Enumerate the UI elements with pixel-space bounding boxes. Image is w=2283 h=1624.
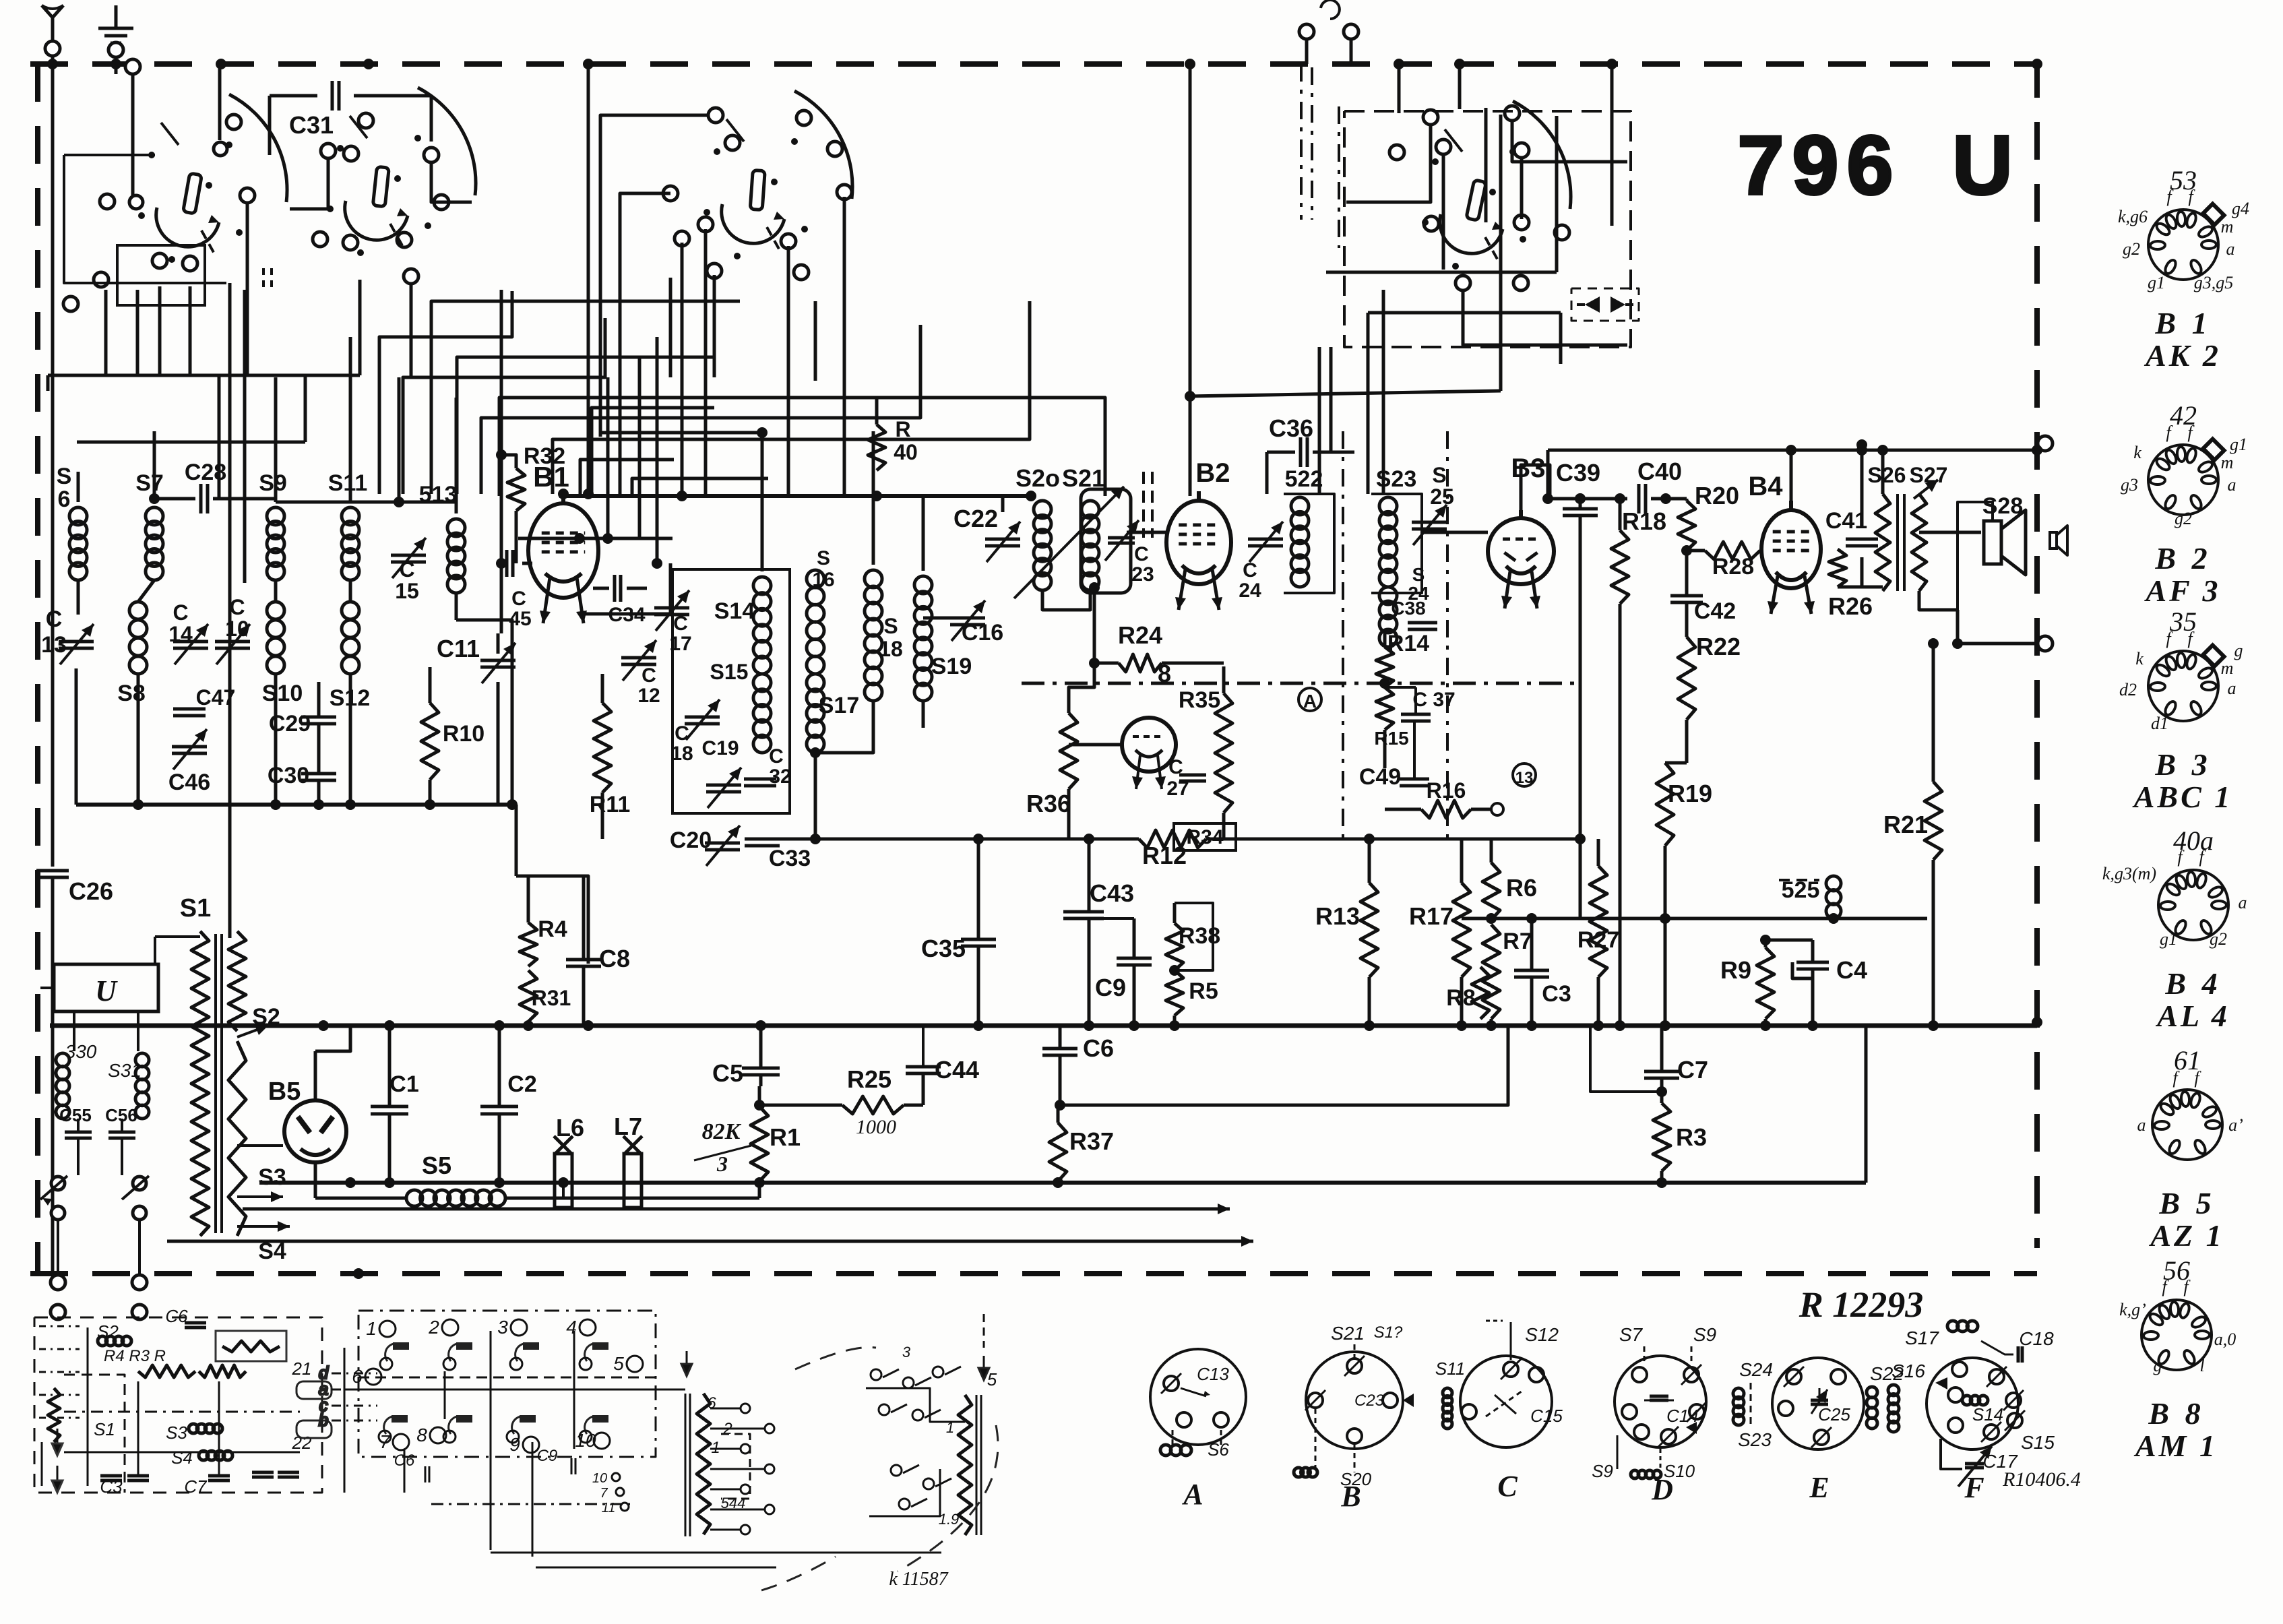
capacitor C26 — [36, 871, 113, 1272]
svg-text:C: C — [1134, 543, 1149, 565]
shield dashes right of C23 — [1144, 472, 1152, 538]
coil S31 — [108, 1053, 149, 1119]
svg-text:k: k — [2135, 649, 2144, 668]
svg-text:R6: R6 — [1506, 874, 1537, 902]
svg-text:C42: C42 — [1694, 598, 1736, 624]
ground symbol — [98, 5, 133, 57]
trimmer C16 — [923, 600, 1003, 646]
trimmer C20 — [670, 825, 740, 866]
resistor R38 — [1166, 903, 1220, 970]
svg-text:B 2: B 2 — [2154, 541, 2211, 575]
svg-text:S24: S24 — [1739, 1359, 1773, 1380]
capacitor C39 — [1556, 459, 1600, 918]
svg-text:C13: C13 — [1197, 1364, 1229, 1384]
svg-text:R25: R25 — [847, 1065, 892, 1093]
svg-text:3: 3 — [497, 1317, 508, 1338]
resistor R31 — [520, 970, 571, 1031]
tube B2 — [1166, 458, 1231, 610]
svg-text:B: B — [1340, 1480, 1361, 1513]
svg-text:22: 22 — [292, 1433, 312, 1453]
resistor R7 — [1482, 925, 1532, 1026]
svg-text:g1: g1 — [2148, 273, 2165, 292]
tube socket B3 ABC1 — [2119, 606, 2243, 814]
coil S19 — [914, 494, 972, 728]
capacitor C1 — [371, 1020, 419, 1188]
resistor R4 — [520, 876, 588, 966]
coil S15 — [710, 660, 771, 753]
title 796 U — [1738, 119, 2013, 212]
svg-text:C: C — [1497, 1470, 1518, 1503]
svg-text:C: C — [769, 745, 784, 768]
terminal speaker right — [2038, 436, 2067, 651]
svg-text:B3: B3 — [1511, 454, 1545, 483]
svg-text:R37: R37 — [1069, 1127, 1114, 1155]
svg-text:S: S — [1412, 564, 1425, 585]
capacitor C40 — [1637, 458, 1687, 513]
svg-text:1: 1 — [711, 1439, 720, 1457]
svg-text:R21: R21 — [1883, 811, 1928, 838]
socket view F — [1888, 1321, 2081, 1504]
trimmer C13 — [41, 606, 94, 664]
trimmer C46 — [168, 729, 210, 795]
svg-text:C6: C6 — [1083, 1034, 1114, 1062]
svg-text:C33: C33 — [769, 846, 811, 871]
svg-text:S9: S9 — [1693, 1324, 1716, 1345]
svg-text:U: U — [1952, 119, 2013, 212]
resistor R13 — [1315, 834, 1378, 1026]
svg-text:12: 12 — [637, 685, 660, 707]
svg-text:C: C — [675, 722, 689, 745]
svg-text:k: k — [2133, 443, 2141, 462]
switch mains a — [40, 1176, 67, 1220]
coil S8 — [117, 580, 154, 805]
socket view E — [1733, 1358, 1904, 1504]
resistor R26 — [1828, 549, 1883, 620]
svg-text:R13: R13 — [1315, 902, 1360, 930]
svg-text:522: 522 — [1285, 466, 1323, 492]
svg-text:S4: S4 — [171, 1447, 193, 1468]
svg-text:18: 18 — [670, 743, 693, 765]
svg-text:R35: R35 — [1179, 687, 1220, 713]
svg-text:k 11587: k 11587 — [889, 1569, 948, 1590]
svg-text:S1: S1 — [180, 894, 211, 923]
svg-text:C26: C26 — [69, 877, 113, 905]
service sub-schematic right block — [319, 1311, 998, 1590]
svg-text:C8: C8 — [599, 945, 630, 972]
svg-text:C9: C9 — [1095, 974, 1126, 1001]
wire long vertical from top border — [583, 64, 594, 499]
svg-text:S19: S19 — [931, 654, 972, 679]
socket view C — [1435, 1321, 1563, 1503]
svg-text:R27: R27 — [1577, 927, 1619, 953]
tube socket B2 AF3 — [2121, 400, 2247, 608]
svg-text:C34: C34 — [608, 604, 645, 626]
svg-text:S16: S16 — [1891, 1361, 1925, 1381]
svg-text:k,g’: k,g’ — [2119, 1300, 2146, 1319]
resistor R1 — [751, 1086, 801, 1181]
resistor R8 — [1446, 967, 1489, 1019]
svg-text:C4: C4 — [1836, 956, 1867, 984]
svg-text:C14: C14 — [1666, 1406, 1699, 1426]
svg-text:C15: C15 — [1530, 1406, 1563, 1426]
capacitor C38 — [1391, 598, 1437, 629]
capacitor small near R35 — [1179, 775, 1206, 781]
svg-text:R4 R3 R: R4 R3 R — [104, 1347, 166, 1365]
svg-text:C5: C5 — [712, 1059, 743, 1087]
resistor R21 — [1883, 638, 1942, 1022]
capacitor C41 — [1825, 439, 1878, 587]
coil S7 — [135, 431, 164, 580]
svg-text:S3: S3 — [258, 1164, 286, 1190]
svg-text:3: 3 — [716, 1152, 728, 1176]
coil S10 — [262, 580, 303, 805]
resistor R27 — [1577, 839, 1619, 1026]
capacitor C34 — [593, 575, 647, 626]
wire speaker return — [1952, 610, 2037, 649]
resistor R17 — [1409, 839, 1470, 1026]
trimmer C11 — [437, 633, 515, 805]
svg-text:R8: R8 — [1446, 985, 1475, 1011]
svg-text:C38: C38 — [1391, 598, 1425, 619]
svg-text:S14: S14 — [1972, 1404, 2003, 1425]
svg-text:S: S — [1432, 463, 1446, 487]
transformer S1 secondary — [228, 931, 290, 1264]
svg-text:L7: L7 — [614, 1113, 642, 1140]
resistor R24 — [1094, 621, 1224, 672]
capacitor C31 — [270, 81, 431, 155]
wire bus drop to power — [516, 805, 588, 964]
coil S23 — [1371, 466, 1422, 593]
svg-text:AM 1: AM 1 — [2133, 1429, 2218, 1463]
svg-text:B 5: B 5 — [2158, 1186, 2215, 1220]
svg-text:S31: S31 — [108, 1060, 142, 1081]
svg-text:R17: R17 — [1409, 902, 1453, 930]
svg-text:R: R — [895, 417, 910, 441]
svg-text:25: 25 — [1430, 485, 1454, 509]
svg-text:S11: S11 — [1435, 1358, 1465, 1379]
resistor R19 — [1656, 763, 1712, 1026]
svg-text:5: 5 — [613, 1353, 624, 1374]
capacitor C43 — [1063, 839, 1134, 1026]
svg-text:R26: R26 — [1828, 592, 1873, 620]
resistor R16 — [1385, 778, 1503, 818]
capacitor C4 — [1792, 940, 1867, 1026]
coil S21 — [1014, 464, 1124, 598]
svg-text:S11: S11 — [328, 470, 368, 496]
shield dash-dot lines near S-D — [1301, 64, 1631, 347]
svg-text:C: C — [46, 606, 63, 632]
svg-text:C47: C47 — [196, 685, 236, 710]
svg-text:R 12293: R 12293 — [1799, 1284, 1924, 1325]
svg-text:7: 7 — [379, 1431, 391, 1452]
wire band interconnect ladder — [379, 193, 1105, 496]
svg-text:AF 3: AF 3 — [2144, 573, 2220, 608]
capacitor C56 — [105, 1105, 137, 1175]
wire B1 top — [518, 337, 768, 614]
coil S25 — [1779, 876, 1841, 918]
svg-text:544: 544 — [721, 1495, 746, 1511]
fuse L7 — [614, 1113, 759, 1208]
rotary switch S-C (band switch 3) — [663, 91, 852, 280]
svg-text:C: C — [229, 595, 245, 619]
svg-text:E: E — [1809, 1471, 1829, 1504]
svg-text:S1: S1 — [94, 1419, 115, 1439]
node B — [1513, 763, 1536, 787]
svg-text:S21: S21 — [1331, 1323, 1365, 1344]
resistor R6 — [1482, 839, 1537, 924]
capacitor C32 — [744, 745, 792, 788]
svg-text:k,g3(m): k,g3(m) — [2102, 864, 2156, 883]
switch mains b — [122, 1176, 149, 1220]
wire small tube grid — [1069, 743, 1122, 747]
svg-text:21: 21 — [292, 1358, 312, 1379]
wire left cluster drops — [48, 115, 716, 499]
coil S30 — [56, 1041, 97, 1119]
wire B2 plate — [1185, 64, 1501, 496]
svg-text:S17: S17 — [819, 693, 860, 718]
trimmer C14 — [168, 600, 208, 664]
svg-text:5: 5 — [987, 1369, 997, 1389]
capacitor C9 — [1092, 918, 1152, 1026]
svg-text:C11: C11 — [437, 635, 480, 662]
svg-text:C29: C29 — [269, 711, 311, 737]
svg-text:C18: C18 — [2019, 1328, 2054, 1349]
wire left coil bus — [76, 799, 518, 810]
svg-text:a: a — [2226, 239, 2235, 259]
svg-text:14: 14 — [168, 622, 193, 646]
svg-text:6: 6 — [352, 1366, 363, 1387]
resistor R10 — [421, 667, 484, 805]
resistor R20 — [1678, 482, 1739, 551]
svg-text:a,0: a,0 — [2214, 1330, 2237, 1349]
tube socket B1 AK2 — [2118, 165, 2249, 373]
tube socket B4 AL4 — [2102, 825, 2247, 1033]
svg-text:C55: C55 — [59, 1105, 92, 1125]
svg-text:S12: S12 — [1525, 1324, 1559, 1345]
node A — [1299, 688, 1321, 712]
wire 1245 line — [762, 834, 1586, 844]
svg-text:6: 6 — [58, 487, 71, 512]
speaker S28 — [1958, 493, 2026, 610]
svg-text:C31: C31 — [289, 111, 334, 139]
trimmer C22 — [953, 505, 1020, 562]
wire IF1 links — [1003, 494, 1090, 610]
svg-text:2: 2 — [428, 1317, 439, 1338]
svg-text:18: 18 — [879, 637, 903, 661]
svg-text:C3: C3 — [1542, 981, 1571, 1007]
svg-text:C39: C39 — [1556, 459, 1600, 487]
trimmer C10 — [215, 595, 250, 664]
svg-text:24: 24 — [1239, 580, 1261, 602]
svg-text:d1: d1 — [2151, 714, 2168, 733]
svg-text:16: 16 — [812, 569, 834, 591]
svg-text:32: 32 — [769, 766, 791, 788]
svg-text:S9: S9 — [1592, 1461, 1613, 1481]
coil S16 — [807, 547, 835, 674]
rotary switch S-B (wave band switch 2) — [290, 88, 476, 377]
svg-text:g2: g2 — [2123, 239, 2140, 259]
wire top bus — [276, 377, 1036, 507]
svg-text:R1: R1 — [770, 1123, 801, 1151]
capacitor C47 — [173, 685, 235, 716]
wire C7 tap — [1590, 1026, 1662, 1092]
svg-text:C6: C6 — [394, 1451, 415, 1470]
svg-text:a: a — [2228, 475, 2237, 495]
svg-text:a: a — [2137, 1115, 2146, 1135]
svg-text:C16: C16 — [962, 620, 1003, 646]
svg-text:m: m — [2221, 217, 2234, 237]
capacitor C7 — [1644, 1026, 1708, 1103]
wire lower bus — [259, 1026, 1866, 1188]
svg-text:B 4: B 4 — [2164, 966, 2221, 1001]
svg-text:1.9: 1.9 — [939, 1511, 960, 1528]
svg-text:10: 10 — [225, 617, 249, 641]
choke S5 — [315, 1152, 563, 1206]
svg-text:g3,g5: g3,g5 — [2194, 273, 2234, 292]
wire ground drop — [115, 64, 118, 74]
svg-text:C19: C19 — [701, 737, 739, 759]
svg-text:B4: B4 — [1748, 472, 1783, 501]
capacitor C6 — [1042, 1026, 1114, 1111]
svg-text:23: 23 — [1131, 563, 1154, 586]
svg-text:m: m — [2221, 658, 2234, 678]
diode pair (pick-up contacts) — [1571, 288, 1639, 321]
svg-text:C28: C28 — [185, 460, 226, 485]
resistor R28 — [1681, 542, 1761, 580]
svg-text:C: C — [1243, 559, 1257, 582]
resistor R40 — [868, 398, 918, 470]
wire transformer sec — [1919, 532, 1981, 610]
svg-text:R10: R10 — [443, 721, 484, 747]
svg-text:B 8: B 8 — [2148, 1396, 2204, 1431]
svg-text:S: S — [883, 614, 898, 638]
wire B4 plate — [1786, 445, 1796, 510]
terminal mains pair — [51, 1220, 147, 1319]
svg-text:AZ 1: AZ 1 — [2148, 1218, 2224, 1253]
svg-text:C1: C1 — [389, 1071, 418, 1097]
tube socket B8 AM1 — [2119, 1255, 2236, 1463]
svg-text:11: 11 — [602, 1501, 616, 1516]
svg-text:g3: g3 — [2121, 475, 2138, 495]
svg-text:10: 10 — [575, 1430, 596, 1451]
resistor R5 — [1166, 903, 1218, 1026]
svg-text:S23: S23 — [1376, 466, 1417, 492]
svg-text:AK 2: AK 2 — [2144, 338, 2221, 373]
resistor R15 — [1374, 687, 1408, 768]
svg-text:C25: C25 — [1818, 1404, 1850, 1425]
service sub-schematic left block — [34, 1306, 332, 1497]
svg-text:R4: R4 — [538, 916, 567, 942]
svg-text:L6: L6 — [556, 1114, 584, 1142]
svg-text:AL 4: AL 4 — [2155, 999, 2230, 1033]
svg-text:R31: R31 — [532, 986, 571, 1010]
capacitor C33 — [745, 839, 811, 871]
svg-text:S14: S14 — [714, 598, 755, 624]
svg-text:B5: B5 — [268, 1078, 301, 1106]
svg-text:S: S — [817, 547, 830, 569]
svg-text:C20: C20 — [670, 827, 712, 853]
capacitor C2 — [480, 1026, 537, 1188]
trimmer C12 — [621, 640, 660, 707]
svg-text:S15: S15 — [2021, 1432, 2055, 1453]
trimmer S25cap — [1412, 463, 1454, 545]
antenna terminal — [42, 5, 63, 56]
coil S9 — [259, 377, 287, 580]
svg-text:R3: R3 — [1676, 1123, 1707, 1151]
svg-text:330: 330 — [65, 1041, 97, 1062]
svg-text:R7: R7 — [1503, 929, 1532, 954]
svg-text:S2o: S2o — [1015, 464, 1060, 492]
svg-text:k,g6: k,g6 — [2118, 207, 2148, 226]
transformer S1 core — [216, 934, 222, 1233]
rotary switch S-A (wave band switch left) — [63, 59, 287, 311]
capacitor C42 — [1670, 551, 1736, 624]
svg-text:15: 15 — [395, 579, 419, 603]
svg-text:C2: C2 — [507, 1071, 536, 1097]
capacitor C36 — [1267, 414, 1354, 494]
capacitor C30 — [268, 724, 336, 805]
svg-text:8: 8 — [416, 1425, 427, 1445]
svg-text:10: 10 — [592, 1471, 607, 1486]
svg-text:R24: R24 — [1118, 621, 1162, 649]
svg-text:3: 3 — [902, 1344, 911, 1361]
capacitor C5 — [712, 1026, 780, 1087]
svg-text:R19: R19 — [1668, 780, 1712, 807]
heater line arrow 1 — [243, 1204, 1230, 1214]
svg-text:513: 513 — [419, 482, 458, 507]
svg-text:S7: S7 — [135, 470, 164, 496]
tube B3 — [1488, 454, 1554, 608]
coil S17 — [807, 674, 859, 839]
svg-text:R12: R12 — [1142, 842, 1187, 869]
svg-text:S2: S2 — [97, 1321, 119, 1342]
resistor R11 — [590, 674, 631, 839]
resistor R25 — [759, 1065, 923, 1138]
svg-text:g4: g4 — [2232, 199, 2249, 218]
wire C6 branch — [1060, 1026, 1508, 1105]
svg-text:g1: g1 — [2160, 929, 2177, 949]
svg-text:g2: g2 — [2175, 509, 2192, 528]
svg-text:796: 796 — [1738, 119, 1902, 212]
svg-text:R14: R14 — [1387, 631, 1429, 656]
svg-text:m: m — [2221, 453, 2234, 472]
wire SWd drops — [1319, 64, 1612, 494]
svg-text:C30: C30 — [268, 763, 309, 788]
svg-text:C46: C46 — [168, 770, 210, 795]
socket view D — [1592, 1324, 1716, 1506]
svg-text:S5: S5 — [422, 1152, 451, 1179]
svg-text:S10: S10 — [262, 681, 303, 706]
coil S18 — [865, 431, 903, 701]
svg-text:C3: C3 — [100, 1476, 123, 1497]
svg-text:R9: R9 — [1720, 956, 1751, 984]
coil S20 — [1015, 464, 1060, 590]
trimmer C17 — [654, 590, 692, 655]
resistor R18 — [1611, 493, 1666, 1026]
svg-text:C49: C49 — [1359, 764, 1401, 790]
coil S13 — [419, 398, 512, 805]
trimmer C24 — [1239, 522, 1283, 602]
node top border joins — [216, 59, 2042, 69]
svg-text:R18: R18 — [1622, 507, 1666, 535]
coil S12 — [330, 580, 371, 805]
border frame (dashed chassis outline) — [30, 60, 2037, 1274]
svg-text:D: D — [1651, 1473, 1673, 1506]
svg-text:13: 13 — [1515, 769, 1534, 787]
svg-text:l: l — [2199, 1356, 2204, 1375]
svg-text:g1: g1 — [2230, 435, 2247, 454]
wire switch drop left — [230, 283, 245, 938]
